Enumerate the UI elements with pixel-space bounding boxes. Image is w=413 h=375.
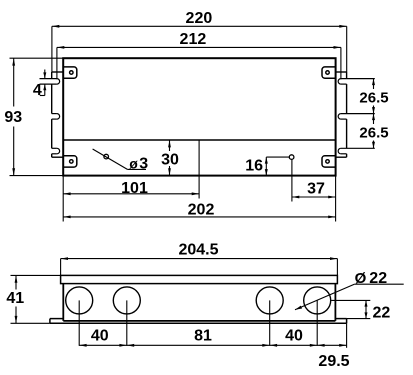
svg-text:26.5: 26.5 [359,124,388,141]
svg-text:29.5: 29.5 [318,353,349,370]
svg-text:212: 212 [180,31,207,48]
dimension 26.5 lower [359,114,388,149]
bottom-left tab [63,156,77,167]
small hole (16/37 reference) [289,155,294,160]
dimension 93 [4,58,63,175]
dimension 41 [6,275,60,323]
svg-text:204.5: 204.5 [178,241,218,258]
svg-text:40: 40 [91,328,109,345]
svg-text:22: 22 [369,270,387,287]
svg-text:Ø: Ø [355,270,367,287]
cable hole 2 [113,287,140,314]
svg-text:37: 37 [307,180,325,197]
cable hole 3 [256,287,283,314]
dimension 30 [161,140,179,176]
svg-text:ø: ø [129,155,138,171]
label 29.5 [318,353,349,370]
svg-text:22: 22 [373,305,391,322]
cable hole 1 [66,287,93,314]
cable hole 4 [304,287,331,314]
case body (bottom view) [63,284,335,321]
label 81 [194,328,212,345]
svg-text:202: 202 [188,201,215,218]
svg-text:4: 4 [33,82,42,99]
left mounting flange [52,72,64,157]
svg-text:16: 16 [245,157,263,174]
right flange slot 3 [338,148,375,154]
bottom-right tab hole [326,160,330,164]
right flange slot 1 [338,79,375,85]
svg-text:26.5: 26.5 [359,89,388,106]
label 40 (left) [91,328,109,345]
body outline (top view) [63,58,335,175]
chain dimension lines 40/81/40/29.5 [79,300,346,347]
mounting bracket base [50,319,347,324]
right flange slot 2 [338,114,375,120]
svg-text:220: 220 [186,10,213,27]
right mounting flange [336,72,347,157]
svg-text:101: 101 [121,180,148,197]
top-right tab hole [326,71,330,75]
svg-text:30: 30 [161,152,179,169]
svg-text:40: 40 [285,328,303,345]
dimension 22 [331,300,390,321]
dimension 204.5 [61,241,338,275]
dimension 16 [245,157,289,176]
top-left tab hole [70,71,74,75]
top-right tab [322,67,336,78]
bottom-right tab [322,156,336,167]
dimension 26.5 upper [359,79,388,114]
svg-text:41: 41 [6,290,24,307]
dimension 101 [63,140,199,222]
dimension 220 [52,10,347,72]
left flange slot 1 [40,79,60,85]
leader and label Ø3 [93,149,149,172]
dimension 37 [292,160,336,222]
dimension 202 [63,201,335,218]
leader and label Ø22 [295,270,404,310]
svg-text:81: 81 [194,328,212,345]
inner edge line [63,139,335,141]
left flange slot 3 [52,148,60,154]
svg-text:93: 93 [4,109,22,126]
top-left tab [63,67,77,78]
bottom-left tab hole [70,160,74,164]
lid plate (bottom view) [61,275,338,283]
svg-text:3: 3 [139,155,148,172]
hole for Ø3 [104,154,109,159]
dimension 4 [33,70,46,100]
dimension 212 [57,31,341,79]
label 40 (right) [285,328,303,345]
left flange slot 2 [52,114,60,120]
